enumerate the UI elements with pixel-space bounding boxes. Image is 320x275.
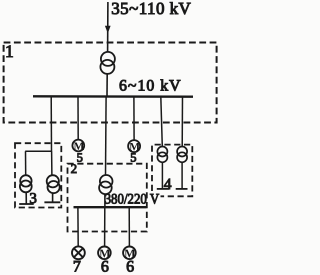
svg-text:35~110 kV: 35~110 kV xyxy=(111,0,191,18)
wire bus to box 3 feeder xyxy=(50,96,52,151)
lamp 7 (circle with cross) xyxy=(72,246,85,259)
wire T4b to foot bar xyxy=(181,162,183,188)
terminal bar T3a xyxy=(19,203,34,205)
svg-text:6: 6 xyxy=(126,259,134,275)
wire LV bus to lamp 7 xyxy=(77,207,79,246)
wire bus to box 2 transformer xyxy=(105,96,108,175)
svg-text:6: 6 xyxy=(101,259,109,275)
motor M 6b xyxy=(123,247,136,260)
svg-text:6~10 kV: 6~10 kV xyxy=(119,78,181,95)
arrowhead on incoming feeder xyxy=(105,26,111,34)
wire T2 to LV bus xyxy=(104,194,106,206)
wire to box 3 right transformer xyxy=(51,151,53,175)
wire bus to box 4 right transformer xyxy=(181,96,183,146)
wire bus to motor 5b xyxy=(133,96,135,140)
wire LV bus to motor 6a xyxy=(104,207,106,246)
transformer T4b xyxy=(177,147,187,157)
wire transformer T1 to HV bus xyxy=(106,74,108,96)
terminal bar T4a xyxy=(157,188,170,190)
svg-text:4: 4 xyxy=(164,176,172,193)
wire bus to box 4 left transformer xyxy=(161,96,163,146)
svg-text:7: 7 xyxy=(73,259,81,275)
svg-text:2: 2 xyxy=(71,161,78,176)
wire T4a to foot bar xyxy=(161,162,163,188)
wire incoming 35-110 kV feeder xyxy=(107,2,109,52)
wire T3b to foot bar xyxy=(52,193,54,202)
boundary box 4 (right substation, dashed) xyxy=(152,145,192,197)
wire to box 3 left transformer xyxy=(25,151,27,175)
HV bus 6-10 kV xyxy=(33,95,193,98)
boundary box 2 (workshop substation, dashed) xyxy=(68,164,147,232)
svg-text:1: 1 xyxy=(5,41,14,61)
motor M 5a xyxy=(72,140,84,152)
transformer T2 (box 2) xyxy=(100,175,113,188)
svg-text:380/220 V: 380/220 V xyxy=(105,191,160,207)
motor M 6a xyxy=(98,247,111,260)
LV bus 380/220 V xyxy=(74,206,147,208)
transformer T3b xyxy=(47,175,59,187)
svg-text:5: 5 xyxy=(77,151,83,165)
wire bus to motor 5a xyxy=(77,96,79,139)
boundary box 3 (left substation, dashed) xyxy=(15,143,61,207)
wire LV bus to motor 6b xyxy=(128,207,130,246)
boundary box 1 (main substation, dashed) xyxy=(4,43,217,123)
wire T3a to foot bar xyxy=(25,192,27,204)
svg-text:3: 3 xyxy=(29,191,37,207)
motor M 5b xyxy=(128,140,140,152)
transformer T4a xyxy=(157,147,167,157)
transformer T1 main (two overlapping circles) xyxy=(101,52,115,66)
terminal bar T4b xyxy=(176,188,188,190)
svg-text:5: 5 xyxy=(130,151,136,165)
node bus inside box 3 xyxy=(25,150,52,152)
transformer T3a xyxy=(20,175,31,186)
terminal bar T3b xyxy=(44,201,60,203)
